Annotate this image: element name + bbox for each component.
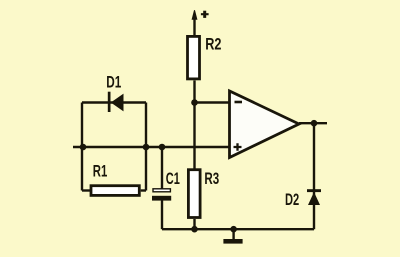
svg-text:R3: R3 (204, 169, 219, 188)
svg-text:D1: D1 (106, 73, 121, 92)
svg-text:D2: D2 (285, 190, 299, 209)
svg-text:R1: R1 (93, 162, 108, 181)
svg-text:R2: R2 (205, 34, 221, 53)
svg-text:C1: C1 (166, 169, 180, 188)
